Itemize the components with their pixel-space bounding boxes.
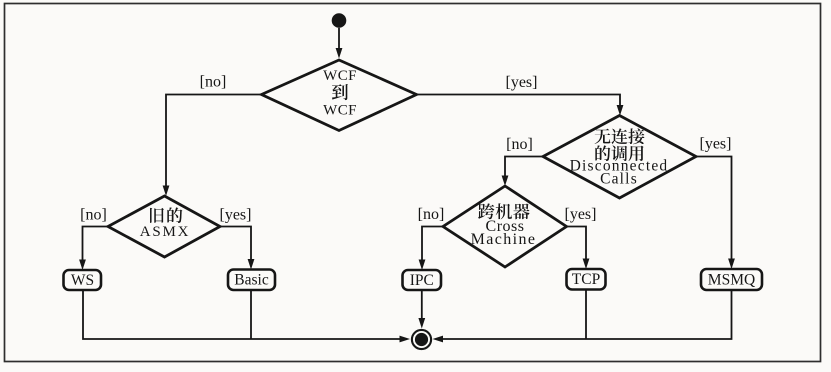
decision WCF to WCF — [262, 60, 417, 131]
svg-text:Machine: Machine — [471, 231, 537, 248]
wire WCF yes branch — [417, 95, 621, 107]
decision Cross Machine — [443, 186, 567, 267]
wire ASMX yes branch — [220, 227, 251, 261]
svg-text:[yes]: [yes] — [700, 136, 732, 153]
svg-text:IPC: IPC — [410, 272, 434, 289]
svg-text:Basic: Basic — [234, 272, 269, 289]
wire WCF no branch — [166, 95, 262, 188]
action TCP — [567, 269, 606, 290]
svg-text:[yes]: [yes] — [220, 207, 252, 224]
wire Disconnected no branch — [505, 157, 543, 178]
decision Disconnected Calls — [543, 116, 696, 199]
wire Basic down — [250, 290, 252, 340]
action WS — [64, 270, 102, 290]
svg-text:TCP: TCP — [572, 271, 600, 288]
svg-text:ASMX: ASMX — [140, 224, 191, 240]
svg-text:[no]: [no] — [418, 206, 445, 223]
end node — [412, 330, 431, 349]
svg-text:[yes]: [yes] — [565, 206, 597, 223]
wire TCP down — [585, 290, 587, 340]
svg-text:[yes]: [yes] — [506, 74, 538, 91]
wire start to WCF diamond — [338, 28, 340, 49]
wire ASMX no branch — [83, 227, 109, 262]
svg-text:[no]: [no] — [80, 207, 107, 224]
wire Disconnected yes branch — [696, 157, 732, 261]
svg-text:WS: WS — [71, 272, 94, 289]
wire Cross Machine no branch — [422, 227, 443, 262]
decision legacy ASMX — [108, 196, 220, 257]
svg-text:[no]: [no] — [506, 136, 533, 153]
svg-text:MSMQ: MSMQ — [708, 271, 755, 288]
wire IPC down to end node — [421, 290, 423, 320]
svg-text:[no]: [no] — [200, 74, 227, 91]
action MSMQ — [701, 269, 762, 290]
svg-text:WCF: WCF — [323, 103, 357, 119]
wire MSMQ down and to end node — [443, 290, 732, 339]
svg-text:Calls: Calls — [600, 170, 638, 187]
wire WS down and to end node — [83, 290, 400, 339]
action Basic — [228, 270, 275, 291]
action IPC — [403, 270, 442, 290]
wire Cross Machine yes branch — [567, 227, 587, 261]
svg-text:WCF: WCF — [323, 68, 357, 84]
start node — [332, 13, 347, 28]
